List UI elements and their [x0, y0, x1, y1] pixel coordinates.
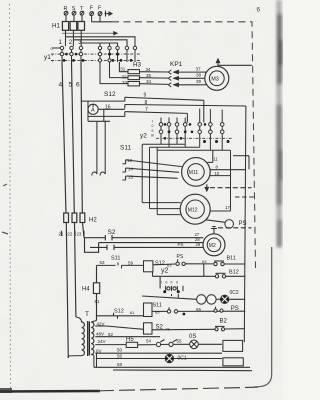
svg-text:H2: H2	[89, 218, 97, 224]
svg-text:II: II	[171, 280, 173, 284]
svg-text:S12: S12	[114, 309, 124, 315]
svg-text:S11: S11	[120, 145, 131, 152]
svg-text:33: 33	[122, 80, 128, 85]
svg-text:S2: S2	[108, 229, 116, 236]
svg-text:23: 23	[77, 232, 82, 237]
svg-text:B12: B12	[229, 270, 239, 276]
svg-text:0C1: 0C1	[178, 355, 187, 361]
svg-text:PS: PS	[177, 254, 184, 260]
svg-text:50: 50	[117, 347, 123, 352]
svg-text:II: II	[176, 280, 178, 284]
svg-text:16: 16	[105, 104, 111, 110]
svg-text:37: 37	[196, 66, 202, 71]
svg-text:M11: M11	[189, 170, 199, 176]
svg-text:III: III	[151, 134, 154, 138]
svg-text:T: T	[85, 311, 89, 318]
svg-text:58: 58	[117, 362, 123, 367]
svg-text:у2: у2	[140, 133, 147, 140]
svg-text:0C2: 0C2	[230, 290, 239, 296]
svg-text:9: 9	[144, 93, 147, 99]
svg-text:S11: S11	[153, 302, 162, 308]
svg-text:22: 22	[68, 232, 73, 237]
svg-text:H4: H4	[82, 287, 90, 293]
svg-text:у1: у1	[44, 54, 51, 61]
svg-text:48V: 48V	[96, 331, 104, 336]
svg-text:0S: 0S	[189, 334, 196, 340]
svg-text:34: 34	[146, 79, 152, 84]
svg-text:7: 7	[145, 107, 148, 113]
svg-text:6: 6	[76, 82, 80, 89]
svg-text:35: 35	[146, 73, 152, 78]
svg-text:34: 34	[146, 67, 152, 72]
svg-text:у2: у2	[161, 268, 169, 275]
svg-text:17: 17	[225, 205, 231, 210]
svg-text:M2: M2	[209, 243, 216, 249]
svg-text:55: 55	[177, 339, 183, 344]
svg-text:B11: B11	[227, 255, 236, 261]
svg-text:S12: S12	[155, 260, 165, 266]
svg-text:10: 10	[215, 171, 220, 176]
svg-text:M12: M12	[188, 207, 198, 213]
svg-text:S11: S11	[111, 256, 120, 262]
svg-text:A: A	[91, 108, 95, 114]
svg-text:39: 39	[196, 79, 202, 84]
svg-text:I: I	[161, 280, 162, 284]
svg-text:H3: H3	[133, 62, 142, 69]
svg-text:5: 5	[69, 82, 73, 89]
svg-text:38: 38	[196, 73, 202, 78]
svg-text:42V: 42V	[97, 321, 105, 326]
svg-text:51: 51	[95, 299, 101, 304]
svg-text:52: 52	[108, 332, 114, 337]
svg-text:6V: 6V	[96, 348, 102, 353]
svg-text:II: II	[152, 129, 154, 133]
svg-text:M3: M3	[211, 76, 219, 82]
svg-text:H1: H1	[52, 22, 61, 29]
svg-text:6: 6	[257, 7, 261, 14]
svg-text:54: 54	[146, 339, 152, 344]
svg-text:KP1: KP1	[170, 61, 183, 68]
svg-text:B2: B2	[220, 319, 228, 325]
svg-text:4: 4	[59, 82, 63, 89]
svg-text:PS: PS	[231, 306, 239, 312]
svg-text:59: 59	[128, 260, 134, 265]
svg-text:8: 8	[145, 100, 148, 106]
svg-text:PS: PS	[239, 221, 247, 227]
svg-text:31: 31	[120, 67, 126, 72]
svg-text:0: 0	[166, 280, 168, 284]
svg-text:11: 11	[214, 157, 219, 162]
svg-text:I: I	[152, 120, 153, 124]
svg-text:I: I	[52, 59, 53, 64]
svg-text:71: 71	[166, 326, 171, 331]
svg-text:0: 0	[152, 124, 154, 128]
svg-text:61: 61	[130, 310, 135, 315]
svg-text:53: 53	[100, 260, 106, 265]
svg-text:S12: S12	[104, 91, 116, 98]
svg-text:56: 56	[117, 353, 123, 358]
svg-text:65: 65	[155, 310, 160, 315]
svg-text:24V: 24V	[98, 339, 106, 344]
svg-text:63: 63	[202, 259, 207, 264]
svg-text:66: 66	[196, 307, 202, 312]
svg-text:32: 32	[122, 75, 128, 80]
